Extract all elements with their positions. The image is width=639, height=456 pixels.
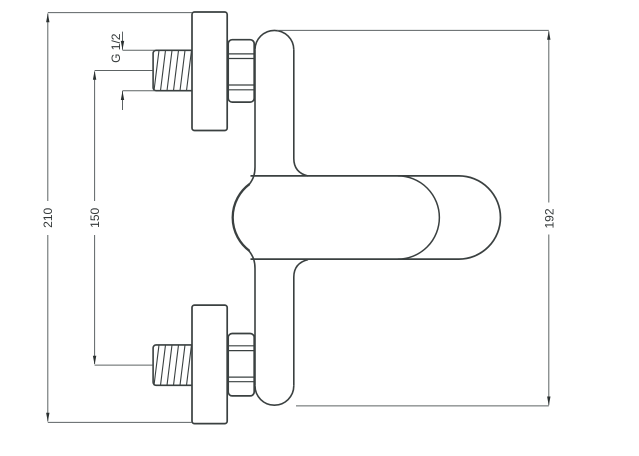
svg-text:G 1/2: G 1/2	[109, 33, 123, 63]
dimension line 150	[94, 72, 96, 365]
mixer body outer outline	[233, 176, 501, 259]
mixer body inner end arc	[398, 176, 440, 259]
top hex nut	[228, 40, 254, 102]
dimension line G 1/2	[122, 32, 124, 110]
bottom pipe thread G1/2	[153, 345, 198, 385]
top wall flange	[192, 12, 227, 131]
dimension extension lines	[48, 13, 549, 423]
dimension line 210	[47, 14, 49, 422]
top pipe thread G1/2	[153, 50, 198, 90]
svg-text:192: 192	[543, 208, 557, 228]
vertical faucet body	[249, 30, 308, 405]
bottom wall flange	[192, 305, 227, 424]
dimension line 192	[548, 31, 550, 405]
bottom hex nut	[228, 334, 254, 396]
svg-text:150: 150	[88, 207, 102, 227]
svg-text:210: 210	[41, 207, 55, 227]
